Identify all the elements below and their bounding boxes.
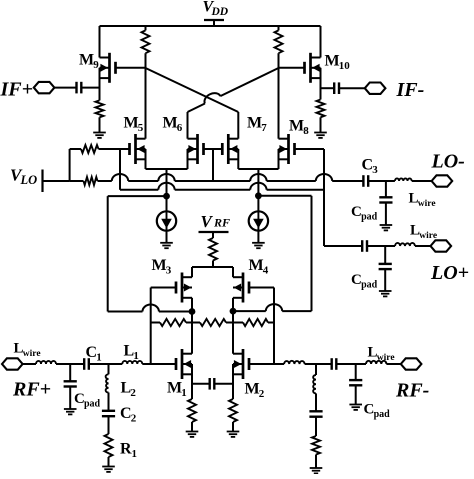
svg-text:1: 1 <box>132 448 138 460</box>
svg-text:pad: pad <box>84 399 101 410</box>
svg-text:IF+: IF+ <box>0 79 33 101</box>
svg-text:1: 1 <box>133 350 139 362</box>
svg-text:2: 2 <box>130 387 136 399</box>
svg-text:8: 8 <box>303 125 309 137</box>
svg-text:M: M <box>289 118 304 135</box>
svg-text:M: M <box>245 381 260 398</box>
svg-text:9: 9 <box>93 59 99 71</box>
svg-text:DD: DD <box>211 6 229 18</box>
svg-text:RF: RF <box>213 216 230 230</box>
svg-text:M: M <box>124 115 139 132</box>
svg-text:M: M <box>163 115 178 132</box>
svg-text:2: 2 <box>131 413 137 425</box>
svg-text:LO+: LO+ <box>430 262 469 284</box>
svg-text:LO: LO <box>20 173 38 187</box>
svg-text:wire: wire <box>418 199 436 209</box>
svg-text:wire: wire <box>23 349 41 359</box>
svg-text:pad: pad <box>374 409 391 420</box>
svg-text:4: 4 <box>263 265 269 277</box>
svg-text:IF-: IF- <box>396 79 425 101</box>
svg-text:M: M <box>79 52 94 69</box>
svg-text:M: M <box>152 257 167 274</box>
svg-text:1: 1 <box>181 387 187 399</box>
svg-text:2: 2 <box>259 388 265 400</box>
svg-text:5: 5 <box>138 122 144 134</box>
svg-text:M: M <box>325 53 340 70</box>
svg-text:6: 6 <box>177 122 183 134</box>
svg-text:7: 7 <box>261 122 267 134</box>
svg-text:wire: wire <box>377 353 395 363</box>
svg-text:M: M <box>247 115 262 132</box>
svg-text:M: M <box>167 380 182 397</box>
svg-text:RF-: RF- <box>395 380 429 402</box>
svg-text:3: 3 <box>166 265 172 277</box>
svg-text:pad: pad <box>361 280 378 291</box>
svg-text:R: R <box>120 441 132 458</box>
svg-text:V: V <box>201 212 214 231</box>
svg-text:RF+: RF+ <box>12 379 51 401</box>
svg-text:10: 10 <box>339 60 351 72</box>
svg-text:3: 3 <box>372 164 378 176</box>
svg-text:M: M <box>249 257 264 274</box>
svg-text:1: 1 <box>96 352 102 364</box>
svg-text:LO-: LO- <box>431 151 465 173</box>
svg-text:wire: wire <box>419 231 437 241</box>
svg-text:pad: pad <box>361 212 378 223</box>
